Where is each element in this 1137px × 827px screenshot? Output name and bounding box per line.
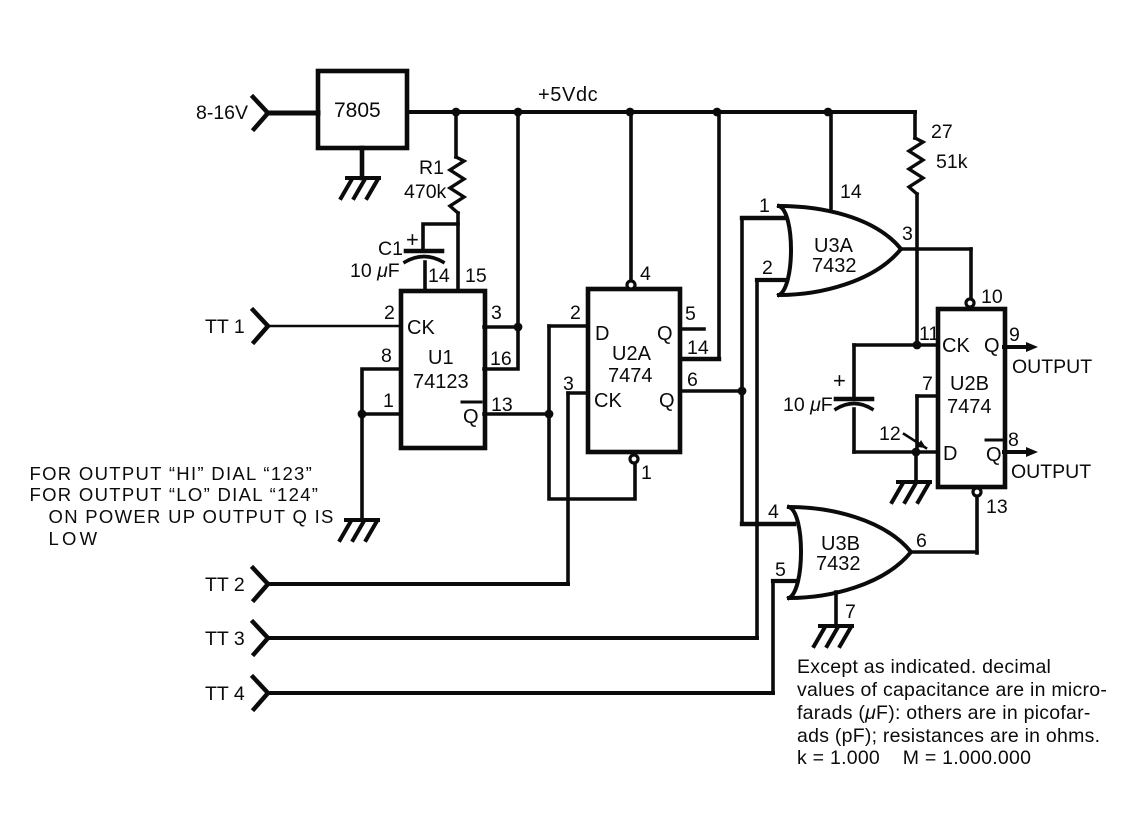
svg-text:7432: 7432	[812, 255, 857, 277]
svg-text:OUTPUT: OUTPUT	[1012, 356, 1092, 378]
svg-text:1: 1	[383, 390, 394, 412]
svg-text:8: 8	[381, 345, 392, 367]
svg-text:8-16V: 8-16V	[196, 102, 248, 124]
svg-text:4: 4	[768, 501, 779, 523]
svg-text:7432: 7432	[816, 553, 861, 575]
svg-text:C1: C1	[378, 238, 403, 260]
svg-text:3: 3	[491, 302, 502, 324]
svg-text:U3A: U3A	[814, 235, 854, 257]
svg-text:8: 8	[1008, 429, 1019, 451]
svg-text:TT 2: TT 2	[205, 574, 245, 596]
svg-text:14: 14	[687, 337, 709, 359]
svg-text:5: 5	[775, 559, 786, 581]
svg-text:14: 14	[840, 181, 862, 203]
svg-text:TT 1: TT 1	[205, 316, 245, 338]
svg-text:+5Vdc: +5Vdc	[538, 84, 598, 106]
svg-text:LOW: LOW	[49, 528, 101, 549]
svg-text:U3B: U3B	[821, 533, 860, 555]
svg-text:2: 2	[570, 302, 581, 324]
svg-text:CK: CK	[942, 335, 970, 357]
svg-text:U1: U1	[428, 347, 454, 369]
svg-text:9: 9	[1009, 324, 1020, 346]
svg-text:15: 15	[465, 265, 487, 287]
svg-text:R1: R1	[419, 157, 444, 179]
svg-text:7: 7	[845, 601, 856, 623]
svg-text:1: 1	[759, 195, 770, 217]
svg-text:10 μF: 10 μF	[783, 394, 833, 416]
svg-text:farads (μF): others are in pic: farads (μF): others are in picofar-	[797, 702, 1091, 724]
svg-text:Q: Q	[659, 390, 675, 412]
svg-text:27: 27	[931, 121, 953, 143]
svg-text:3: 3	[902, 223, 913, 245]
svg-text:12: 12	[879, 423, 901, 445]
svg-text:values of capacitance are in m: values of capacitance are in micro-	[797, 679, 1107, 701]
svg-text:51k: 51k	[936, 151, 968, 173]
svg-text:6: 6	[916, 530, 927, 552]
svg-text:D: D	[943, 443, 957, 465]
svg-text:7474: 7474	[608, 365, 653, 387]
svg-text:Q: Q	[984, 335, 1000, 357]
svg-text:11: 11	[919, 323, 939, 345]
svg-text:6: 6	[687, 369, 698, 391]
svg-text:ads (pF); resistances are in o: ads (pF); resistances are in ohms.	[797, 725, 1100, 747]
svg-text:14: 14	[428, 265, 450, 287]
svg-text:13: 13	[491, 394, 513, 416]
svg-text:7474: 7474	[947, 396, 992, 418]
svg-text:Q: Q	[657, 323, 673, 345]
svg-text:7805: 7805	[334, 99, 381, 122]
svg-text:Q: Q	[986, 444, 1002, 466]
svg-text:FOR OUTPUT “HI” DIAL “123”: FOR OUTPUT “HI” DIAL “123”	[30, 463, 314, 484]
svg-text:k = 1.000 M = 1.000.000: k = 1.000 M = 1.000.000	[797, 747, 1031, 769]
svg-text:OUTPUT: OUTPUT	[1011, 461, 1091, 483]
svg-text:16: 16	[490, 348, 512, 370]
svg-text:Except as indicated. decimal: Except as indicated. decimal	[797, 656, 1051, 678]
svg-text:13: 13	[986, 496, 1008, 518]
svg-text:3: 3	[563, 373, 574, 395]
svg-text:TT 3: TT 3	[205, 628, 245, 650]
svg-text:1: 1	[641, 462, 652, 484]
svg-text:D: D	[595, 323, 609, 345]
svg-text:5: 5	[685, 303, 696, 325]
svg-text:2: 2	[384, 302, 395, 324]
svg-text:2: 2	[762, 257, 773, 279]
svg-text:10: 10	[981, 286, 1003, 308]
svg-text:+: +	[406, 227, 419, 252]
svg-text:U2B: U2B	[950, 373, 989, 395]
svg-text:10 μF: 10 μF	[350, 260, 400, 282]
svg-text:CK: CK	[594, 390, 622, 412]
svg-text:CK: CK	[407, 317, 435, 339]
svg-text:74123: 74123	[413, 371, 469, 393]
svg-text:FOR OUTPUT “LO” DIAL “124”: FOR OUTPUT “LO” DIAL “124”	[30, 484, 320, 505]
svg-text:U2A: U2A	[612, 343, 652, 365]
svg-text:TT 4: TT 4	[205, 683, 245, 705]
svg-text:7: 7	[922, 373, 933, 395]
svg-text:+: +	[833, 368, 846, 393]
svg-text:470k: 470k	[404, 181, 447, 203]
svg-text:4: 4	[640, 263, 651, 285]
svg-text:Q: Q	[463, 406, 479, 428]
svg-text:ON POWER UP OUTPUT Q IS: ON POWER UP OUTPUT Q IS	[49, 506, 335, 527]
